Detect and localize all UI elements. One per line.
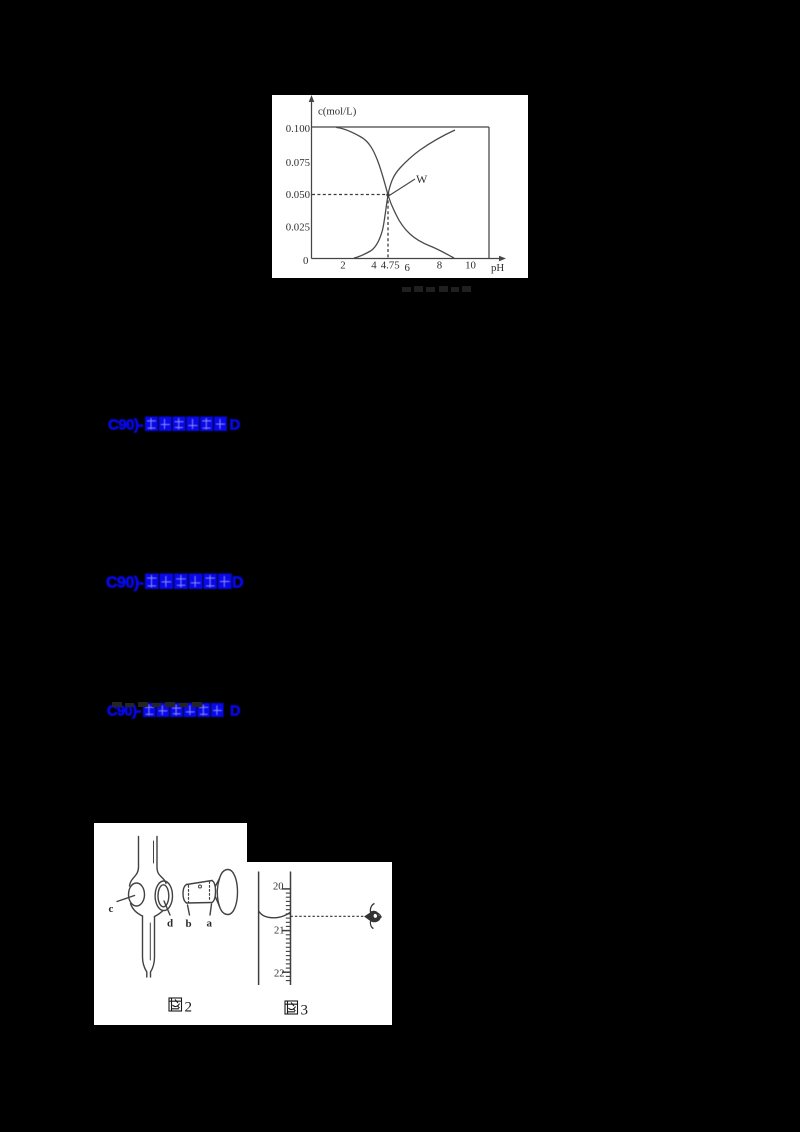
- svg-text:0.050: 0.050: [286, 189, 310, 201]
- svg-text:D: D: [232, 574, 244, 591]
- svg-text:a: a: [207, 918, 213, 930]
- eye symbol: [370, 904, 381, 929]
- stopcock plug right end arc: [212, 881, 216, 903]
- lower tube inner shading line: [149, 923, 151, 960]
- sight dashed line: [291, 915, 366, 917]
- figure 2 white box: [94, 823, 247, 1025]
- svg-text:W: W: [416, 172, 428, 186]
- dashed line horizontal 0.050: [312, 194, 388, 196]
- burette right wall scale line: [290, 872, 292, 986]
- svg-text:C90)-: C90)-: [106, 574, 144, 591]
- chart image block: [272, 95, 528, 278]
- svg-text:0: 0: [303, 255, 308, 267]
- svg-text:3: 3: [301, 1003, 309, 1019]
- svg-text:4: 4: [371, 260, 377, 272]
- faint ghost text fragment upper right: [402, 280, 472, 287]
- y-axis arrow: [309, 95, 315, 102]
- small hole on plug: [199, 885, 202, 888]
- svg-text:20: 20: [273, 882, 284, 893]
- stopcock plug left end arc: [183, 885, 187, 904]
- svg-text:22: 22: [274, 969, 285, 980]
- handle neck top: [216, 879, 220, 887]
- svg-text:C90)-: C90)-: [108, 416, 144, 433]
- barrel body bottom-right joint: [155, 911, 164, 917]
- y-axis: [312, 99, 503, 259]
- handle disc: [217, 870, 237, 915]
- burette left wall: [258, 872, 260, 986]
- burette upper tube left wall: [130, 837, 139, 887]
- stopcock plug bottom line: [187, 902, 213, 905]
- major tick 22: [282, 971, 291, 973]
- label b pointer: [188, 905, 190, 915]
- faint ghost text above link 3: [112, 695, 202, 701]
- hyperlink line 2: [106, 572, 246, 597]
- barrel body bottom-left joint: [131, 904, 143, 917]
- major tick 20: [282, 888, 291, 890]
- svg-text:0.075: 0.075: [286, 157, 310, 169]
- label c pointer: [117, 896, 135, 902]
- svg-text:0.100: 0.100: [286, 123, 310, 135]
- curve ascending: [354, 130, 455, 258]
- lower tube left wall: [143, 916, 147, 977]
- hyperlink line 3: [107, 702, 241, 724]
- upper tube inner shading line: [153, 841, 155, 863]
- hyperlink line 1: [108, 415, 242, 438]
- svg-text:D: D: [230, 416, 241, 433]
- meniscus curve: [259, 912, 290, 918]
- crossing knot: [386, 193, 389, 196]
- svg-text:c: c: [109, 903, 114, 915]
- minor ticks: [286, 893, 291, 981]
- svg-text:0.025: 0.025: [286, 222, 310, 234]
- svg-text:6: 6: [404, 262, 410, 274]
- svg-text:b: b: [186, 918, 192, 930]
- svg-text:2: 2: [340, 260, 345, 272]
- figure 2 caption glyph box: [169, 998, 182, 1011]
- svg-text:4.75: 4.75: [381, 260, 400, 272]
- W pointer line: [389, 179, 416, 196]
- barrel right opening outer ellipse: [155, 881, 172, 911]
- burette upper tube right wall: [157, 837, 166, 884]
- stopcock plug top line: [187, 881, 213, 885]
- lower tube right wall: [151, 917, 155, 978]
- figure 3 caption glyph box: [285, 1001, 298, 1014]
- x-axis arrow: [499, 256, 506, 262]
- svg-text:8: 8: [437, 260, 442, 272]
- svg-text:pH: pH: [491, 262, 504, 274]
- plug dashed end right: [209, 882, 211, 902]
- handle neck bottom: [216, 897, 220, 907]
- barrel right opening inner ellipse: [158, 885, 169, 907]
- dashed line vertical pH4.75: [387, 195, 389, 259]
- major tick 21: [282, 930, 291, 932]
- svg-text:2: 2: [185, 1000, 193, 1016]
- svg-text:21: 21: [274, 926, 285, 937]
- plug dashed end left: [188, 886, 190, 903]
- barrel left opening outer ellipse: [129, 883, 145, 906]
- curve descending: [336, 127, 454, 258]
- label a pointer: [210, 904, 212, 915]
- svg-text:c(mol/L): c(mol/L): [318, 106, 357, 118]
- eye arrowhead: [364, 912, 371, 922]
- svg-text:10: 10: [465, 260, 476, 272]
- figure 3 white box: [247, 862, 392, 1025]
- svg-text:d: d: [167, 918, 173, 930]
- svg-text:D: D: [230, 704, 240, 720]
- label d pointer: [164, 901, 170, 915]
